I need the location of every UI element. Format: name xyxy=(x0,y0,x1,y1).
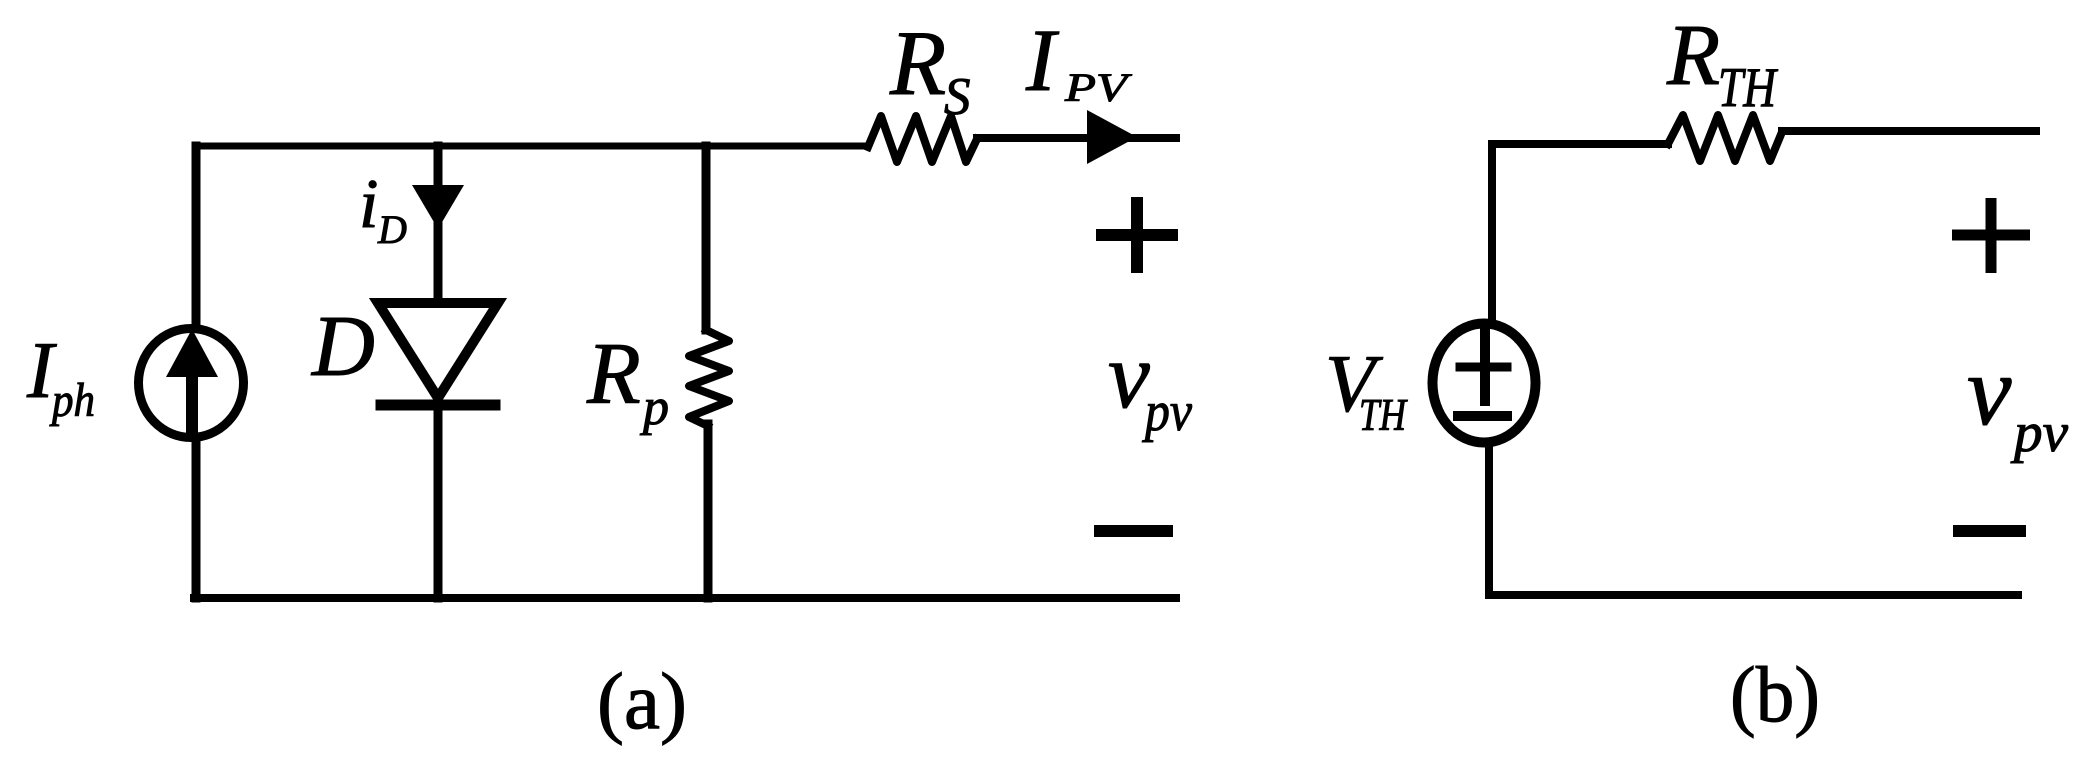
svg-text:TH: TH xyxy=(1359,390,1408,440)
svg-text:S: S xyxy=(944,68,971,126)
svg-text:R: R xyxy=(586,326,641,423)
svg-text:(a): (a) xyxy=(597,658,687,746)
svg-text:TH: TH xyxy=(1718,57,1778,119)
svg-text:pv: pv xyxy=(1141,381,1192,443)
svg-text:D: D xyxy=(311,297,375,394)
svg-text:i: i xyxy=(359,166,378,243)
svg-text:(b): (b) xyxy=(1730,652,1820,739)
svg-text:ph: ph xyxy=(49,374,95,427)
svg-text:pv: pv xyxy=(2010,402,2068,464)
svg-text:p: p xyxy=(639,379,669,436)
svg-text:PV: PV xyxy=(1064,65,1133,110)
svg-text:v: v xyxy=(1967,335,2012,446)
svg-text:v: v xyxy=(1108,324,1150,428)
svg-text:D: D xyxy=(377,207,407,252)
svg-text:I: I xyxy=(1025,12,1060,110)
svg-text:R: R xyxy=(889,12,946,114)
svg-text:R: R xyxy=(1666,6,1720,103)
